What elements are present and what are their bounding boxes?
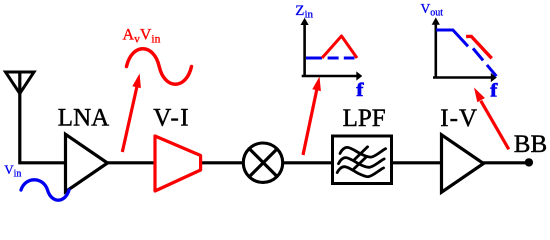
svg-text:Zin: Zin [295,3,313,21]
svg-text:f: f [490,80,498,101]
svg-text:f: f [356,80,364,101]
svg-text:LPF: LPF [343,105,386,132]
svg-text:V-I: V-I [153,105,190,132]
svg-text:BB: BB [514,131,547,158]
svg-text:I-V: I-V [440,105,478,132]
svg-text:Vout: Vout [421,1,444,19]
svg-text:LNA: LNA [58,105,109,132]
svg-text:AvVin: AvVin [123,27,161,46]
svg-text:Vin: Vin [4,162,21,180]
